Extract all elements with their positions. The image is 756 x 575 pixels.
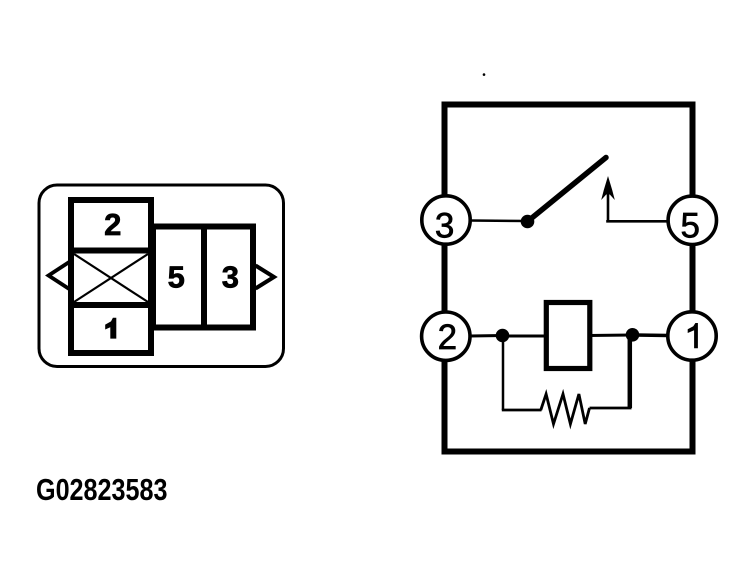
node A dot [496, 329, 510, 343]
wire to resistor left [502, 409, 542, 412]
cavity pair frame (5 / 3) [153, 227, 253, 328]
junction dot (common contact) [521, 215, 535, 229]
wire coil to node B [589, 334, 632, 338]
connector outline (rounded) [39, 185, 284, 367]
cavity divider 5/3 [201, 224, 207, 331]
switch actuation arrowhead [601, 176, 615, 200]
pin 1 label [688, 323, 698, 348]
relay case outline [445, 105, 693, 452]
right index arrow [256, 266, 275, 289]
svg-text:G02823583: G02823583 [36, 472, 168, 507]
cavity divider upper [68, 248, 154, 254]
wire pin2 to node A [470, 334, 503, 338]
pin 5 [668, 196, 716, 244]
resistor (suppression) [541, 394, 590, 424]
left index arrow [49, 262, 71, 290]
svg-text:5: 5 [168, 260, 185, 295]
wire riser to node B [628, 335, 633, 409]
terminal column frame (cavities 2 / key / 1) [71, 200, 151, 353]
relay coil [546, 303, 590, 369]
wire arrow to pin5 [606, 220, 668, 223]
wire node B to pin1 [632, 333, 668, 337]
pin 3 [422, 196, 470, 244]
wire node A to coil [503, 335, 546, 338]
switch blade [528, 158, 607, 222]
svg-text:5: 5 [680, 206, 699, 245]
svg-text:3: 3 [435, 206, 454, 245]
keyway X diagonal 2 [74, 254, 148, 302]
pin 1 [668, 312, 716, 360]
speck [483, 73, 486, 76]
wire resistor to riser [590, 407, 632, 410]
wire node A drop [502, 336, 505, 411]
node B dot [626, 328, 640, 342]
cavity divider lower [68, 302, 154, 308]
pin 2 [422, 312, 470, 360]
svg-text:3: 3 [222, 260, 239, 295]
cavity label 1 [105, 318, 116, 339]
wire pin3 to contact junction [470, 219, 527, 222]
switch actuation arrow shaft [607, 190, 610, 222]
svg-text:2: 2 [438, 318, 457, 357]
keyway X diagonal 1 [74, 254, 148, 302]
svg-text:2: 2 [104, 207, 121, 242]
